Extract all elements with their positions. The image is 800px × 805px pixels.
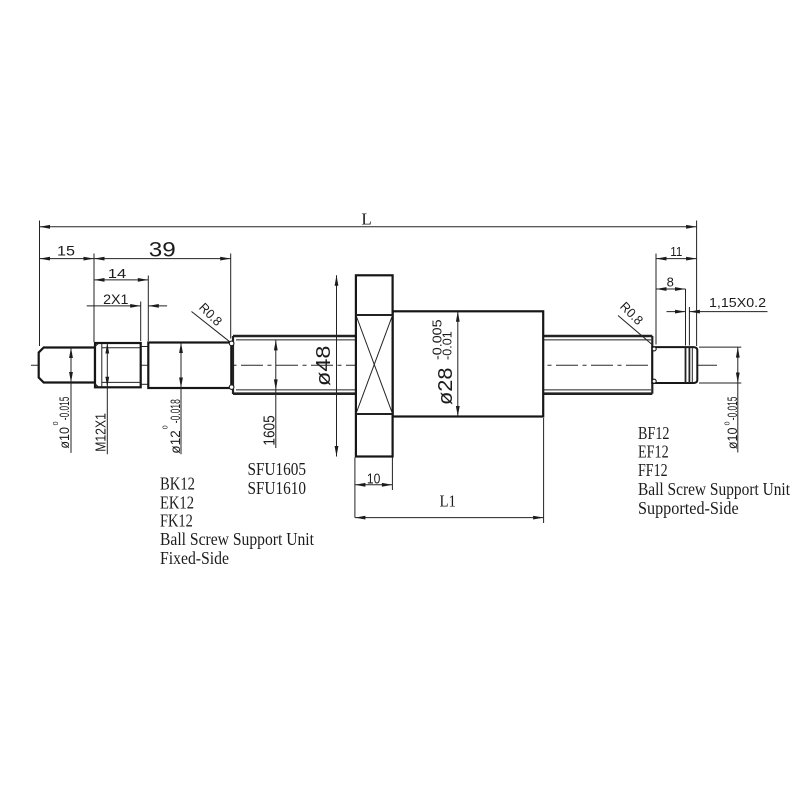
- svg-text:ø48: ø48: [313, 346, 335, 387]
- svg-text:15: 15: [57, 243, 75, 259]
- svg-text:2X1: 2X1: [103, 291, 129, 307]
- svg-text:EK12: EK12: [160, 492, 194, 512]
- svg-text:ø12: ø12: [167, 430, 183, 454]
- svg-text:FK12: FK12: [160, 511, 193, 531]
- svg-text:1605: 1605: [262, 415, 279, 445]
- svg-text:BF12: BF12: [638, 423, 670, 443]
- svg-text:ø28: ø28: [435, 368, 457, 406]
- svg-text:0: 0: [162, 425, 169, 429]
- svg-text:L1: L1: [439, 492, 456, 511]
- svg-text:Fixed-Side: Fixed-Side: [160, 548, 229, 568]
- svg-text:FF12: FF12: [638, 460, 668, 480]
- svg-text:EF12: EF12: [638, 442, 669, 462]
- svg-text:0: 0: [724, 421, 731, 425]
- svg-text:SFU1605: SFU1605: [248, 459, 307, 479]
- svg-text:SFU1610: SFU1610: [248, 478, 307, 498]
- svg-text:ø10: ø10: [724, 427, 740, 449]
- svg-text:L: L: [361, 210, 371, 229]
- svg-text:Supported-Side: Supported-Side: [638, 498, 739, 518]
- svg-text:39: 39: [149, 239, 176, 262]
- svg-text:-0.018: -0.018: [167, 399, 183, 423]
- svg-text:Ball Screw Support Unit: Ball Screw Support Unit: [160, 529, 314, 549]
- svg-text:-0.015: -0.015: [56, 396, 72, 420]
- svg-text:Ball Screw Support Unit: Ball Screw Support Unit: [638, 479, 790, 499]
- svg-text:14: 14: [108, 266, 127, 281]
- svg-text:1,15X0.2: 1,15X0.2: [709, 295, 766, 310]
- svg-text:BK12: BK12: [160, 474, 195, 494]
- svg-text:M12X1: M12X1: [92, 413, 109, 452]
- svg-text:-0.015: -0.015: [724, 396, 740, 420]
- svg-text:8: 8: [667, 274, 674, 289]
- svg-text:10: 10: [367, 471, 381, 487]
- svg-text:0: 0: [53, 421, 60, 425]
- svg-text:-0.01: -0.01: [439, 331, 454, 360]
- svg-text:ø10: ø10: [56, 427, 72, 449]
- svg-text:11: 11: [670, 244, 682, 259]
